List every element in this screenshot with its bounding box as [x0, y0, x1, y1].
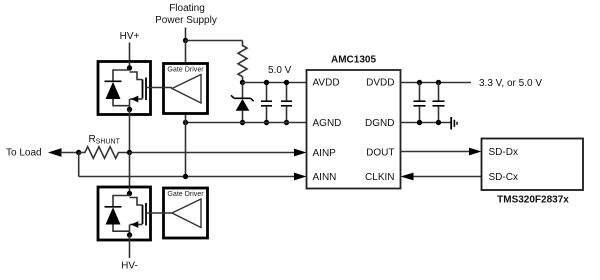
svg-text:Floating: Floating	[169, 3, 205, 14]
svg-text:DOUT: DOUT	[366, 147, 394, 158]
node: C3 top	[417, 80, 422, 85]
svg-text:SD-Dx: SD-Dx	[489, 147, 518, 158]
capacitor C2	[281, 83, 292, 123]
IGBT module Q2 (bottom)	[98, 187, 151, 240]
node: AGND rail left	[183, 120, 188, 125]
gate driver U2 (top)	[164, 64, 208, 114]
wire: AINP line	[130, 152, 295, 154]
arrow: into SD-Dx	[469, 148, 482, 156]
arrow: to load	[48, 148, 62, 157]
svg-text:5.0 V: 5.0 V	[268, 65, 292, 76]
svg-text:AINP: AINP	[313, 148, 337, 159]
node: C4 bottom	[436, 120, 441, 125]
wire: load to shunt	[60, 152, 79, 154]
svg-text:3.3 V, or 5.0 V: 3.3 V, or 5.0 V	[479, 78, 542, 89]
wire: supply junction to resistor	[186, 40, 243, 42]
wire: HV+ to IGBT module	[129, 43, 131, 62]
svg-text:HV+: HV+	[120, 31, 140, 42]
node: C1 bottom	[264, 120, 269, 125]
svg-text:Gate Driver: Gate Driver	[167, 66, 204, 74]
svg-text:DVDD: DVDD	[366, 78, 394, 89]
wire: AINN line	[79, 176, 294, 178]
node: AINN / AGND junction	[183, 174, 188, 179]
svg-text:TMS320F2837x: TMS320F2837x	[497, 195, 569, 206]
node: shunt right junction	[127, 150, 132, 155]
wire: upper gate	[146, 87, 172, 89]
svg-text:SD-Cx: SD-Cx	[489, 172, 518, 183]
wire: DVDD rail	[401, 82, 472, 84]
svg-text:AMC1305: AMC1305	[331, 55, 376, 66]
node: C2 bottom	[284, 120, 289, 125]
svg-text:To Load: To Load	[6, 148, 42, 159]
MCU: TMS320F2837x	[482, 139, 584, 206]
op-amp U1: AMC1305 modulator	[307, 55, 401, 189]
node: C3 bottom	[417, 120, 422, 125]
node: floating supply junction	[183, 38, 188, 43]
wire: AINN drop from shunt left	[78, 153, 80, 177]
svg-text:CLKIN: CLKIN	[365, 172, 394, 183]
wire: lower gate	[146, 212, 172, 214]
svg-text:AINN: AINN	[313, 172, 337, 183]
node: C1 top	[264, 80, 269, 85]
wire: DOUT to SD-Dx	[401, 151, 471, 153]
IGBT module Q1 (top)	[98, 62, 151, 115]
node: zener anode	[240, 120, 245, 125]
wire: supply to upper gate driver	[185, 41, 187, 64]
wire: gate driver ground drop	[185, 114, 187, 123]
wire: lower emitter to HV-	[129, 240, 131, 258]
node: 5.0V rail junction	[240, 80, 245, 85]
gate driver U3 (bottom)	[164, 188, 208, 238]
capacitor C3	[414, 83, 426, 123]
svg-text:Gate Driver: Gate Driver	[167, 190, 204, 198]
node: C2 top	[284, 80, 289, 85]
wire: AGND to AINN line	[185, 123, 187, 177]
label: Floating Power Supply	[155, 3, 217, 26]
arrow: into AINN	[294, 173, 307, 181]
arrow: into CLKIN	[401, 173, 414, 181]
ground symbol	[451, 117, 457, 130]
svg-text:AVDD: AVDD	[313, 78, 340, 89]
wire: DGND rail	[401, 122, 451, 124]
svg-text:Power Supply: Power Supply	[155, 15, 217, 26]
capacitor C1	[261, 83, 272, 123]
node: C4 top	[436, 80, 441, 85]
wire: floating supply stub	[185, 28, 187, 41]
wire: shunt node to lower IGBT	[129, 153, 131, 188]
resistor RSHUNT	[79, 134, 130, 158]
zener diode D1	[231, 83, 254, 123]
capacitor C4	[433, 83, 445, 123]
wire: upper emitter to shunt node	[129, 115, 131, 153]
wire: AGND rail	[186, 122, 307, 124]
svg-text:HV-: HV-	[121, 261, 138, 272]
arrow: into AINP	[294, 149, 307, 157]
resistor R1 (supply dropper)	[238, 41, 247, 83]
svg-text:AGND: AGND	[313, 118, 342, 129]
node: shunt left junction	[76, 150, 81, 155]
svg-text:DGND: DGND	[365, 118, 394, 129]
wire: SD-Cx to CLKIN	[413, 176, 482, 178]
wire: 5.0V rail to AVDD	[243, 82, 307, 84]
